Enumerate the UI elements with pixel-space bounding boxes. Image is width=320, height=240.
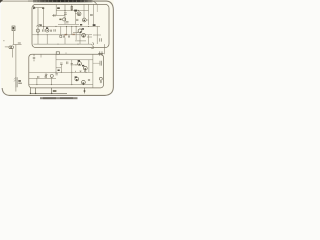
resistor R2 [60,35,62,37]
top cropped text band [33,0,93,2]
label [93,24,96,26]
bus left mid [29,77,56,79]
coil hatches [14,78,16,82]
label red 2 [72,34,75,35]
junction dots row3 [38,34,66,35]
speck [3,40,4,41]
upper schematic box [32,4,109,47]
arrow in Q7 [83,82,85,83]
wire vertical [83,4,85,18]
arrow in Q1 [78,13,80,14]
capacitor C7 [63,35,64,37]
capacitor [88,79,90,80]
wire vertical [55,5,57,16]
label [59,19,61,21]
top band arc [92,1,97,5]
label [57,7,60,9]
arrow in Q6 [76,79,78,80]
mark inside [13,27,15,29]
junction dot [76,64,77,65]
wire left terminal [5,46,9,48]
wire horizontal [73,31,79,33]
right part bars [100,61,102,66]
wire vertical [71,26,73,34]
capacitor bars on wire [71,64,73,65]
wire vertical [60,26,62,35]
bottom cropped text band [40,97,78,99]
transistor Q3b [82,33,86,37]
horizontal bus [30,92,67,94]
wire stub Q7 [82,83,84,85]
connector J1 [98,51,103,55]
junction dots [58,44,59,45]
arrow in Q4 [79,64,81,65]
junction dots row2 [43,26,89,27]
wire vertical [71,5,73,11]
wire down [51,88,53,94]
wire vertical [88,4,90,25]
wire vertical [37,8,39,35]
label blob [42,7,44,9]
transistor Q4 [78,62,82,66]
wire [64,38,66,45]
wire [71,72,73,84]
wire vertical [79,33,81,44]
switch bump on edge [56,52,59,55]
wire vertical [88,60,90,73]
circle part [50,74,53,77]
capacitor small [38,76,39,78]
bus row1b [52,14,65,16]
wire [55,54,57,72]
capacitor C3 [64,13,67,14]
junction dots bus low [36,84,84,85]
tick [74,71,76,73]
transistor Q7 [82,80,86,84]
input component box [12,26,15,31]
arrow in Q2 [84,20,86,21]
label above [46,27,48,28]
transistor Q3 [78,29,82,33]
arrow part [84,90,86,92]
wire antenna horizontal [35,7,44,9]
capacitor vertical pair [67,62,68,65]
wire vertical [104,44,106,54]
wire vertical faint [96,4,98,12]
tick [80,71,82,72]
pot with arrow [44,74,47,79]
transistor Q5 [83,66,87,70]
wire to bottom [15,88,17,92]
wire horizontal [75,40,86,42]
arrow in Q3 [80,31,82,32]
drop wires [37,35,39,44]
card border [2,1,113,95]
wire horizontal link [13,44,22,46]
label [74,10,77,12]
wire [88,35,90,44]
band text specks [36,1,93,2]
transistor circle [63,18,66,21]
wire [36,78,38,84]
capacitor bars [68,35,69,37]
trimmer arrow [36,25,39,27]
card border top-left lighter [0,0,28,2]
bus row3 [33,34,93,36]
wire horizontal [93,34,101,36]
antenna symbol [33,6,36,9]
hanger tick 2 [65,52,67,54]
label [18,42,21,43]
wire vertical [43,8,45,30]
wire down right [84,88,86,94]
wire tick [93,62,100,64]
wire horizontal [58,23,79,25]
coil L1 double line [16,77,17,88]
left card edge fade [1,5,3,88]
wire vertical [93,4,95,26]
wire down from terminals [12,49,14,58]
junction dots bus mid [56,72,87,73]
capacitor vertical [55,74,57,75]
dot [47,30,48,31]
wire vertical [74,12,76,25]
hook on border [88,46,94,48]
hanger tick [40,54,42,57]
bus top [56,59,93,61]
capacitor C2 [50,30,51,32]
wire [46,35,48,44]
wire down [13,31,15,45]
arrow in Q3b [83,35,85,36]
wire vertical [96,26,98,44]
junction dots row1 [65,10,80,11]
label [82,65,84,67]
hanger capacitor [33,54,35,61]
wire [71,60,73,73]
label [40,24,42,25]
wire stub Q1 [75,13,77,15]
part X1 bars [100,38,102,41]
wire vertical [75,26,77,40]
capacitor C6 [90,14,93,15]
capacitor [60,63,63,64]
card (figure plate) [2,0,114,96]
transistor Q6 [75,77,79,81]
capacitor C1 [43,29,44,31]
bus row1 [56,9,88,11]
label [18,80,21,82]
label red [65,34,68,35]
page background [0,0,121,100]
wire down [29,88,31,94]
label [78,60,80,62]
terminal pair [9,46,12,49]
bars [100,82,102,83]
long wire down [15,45,17,78]
label blob [58,70,60,72]
wire stub Q2 [86,19,88,21]
wire stub Q5 [84,70,86,72]
variable capacitor VC1 [36,29,39,32]
capacitor C4 [66,22,69,23]
tick [84,71,86,73]
wire vertical [64,5,66,25]
junction dots [30,93,31,94]
capacitor C5 [76,19,78,20]
transistor circle [46,29,49,32]
wire horizontal [87,36,92,38]
wire stub [56,67,61,69]
label [53,90,57,92]
wire down [35,88,37,94]
transistor Q1 [77,12,81,16]
transistor Q2 [82,18,86,22]
wire [50,77,52,84]
wire stub Q4 top [79,60,81,62]
jack part right [99,77,102,80]
label blob [80,24,82,26]
label [75,76,77,78]
resistor R1 [71,6,73,9]
top-left dark wedge [0,0,3,3]
wire drop [60,64,62,72]
wire vertical right [92,54,94,88]
bottom bus with hook terminal [34,43,94,45]
junction dot [77,32,78,33]
bus mid [29,71,93,73]
bus row2 [38,25,100,27]
arrow in Q5 [85,68,87,69]
capacitor C2b [54,29,55,31]
wire vertical [66,26,68,34]
wire horizontal [73,64,79,66]
bus low [29,84,93,86]
label [82,28,84,30]
capacitor on bus1b [54,14,55,16]
